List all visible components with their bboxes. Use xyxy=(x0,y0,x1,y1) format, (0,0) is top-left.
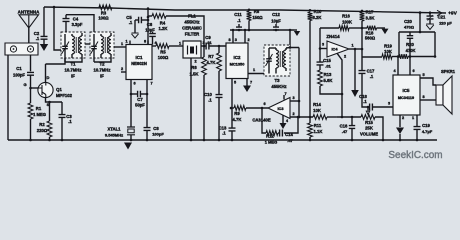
svg-text:R19: R19 xyxy=(384,44,392,49)
capacitor C21 xyxy=(427,13,453,26)
IC5 pin2 ground xyxy=(396,115,404,140)
wire bus to T3 secondary xyxy=(289,29,292,48)
ground at bottom rail xyxy=(124,143,132,150)
node gate xyxy=(29,87,32,90)
ground below C2 xyxy=(40,44,48,51)
capacitor C13 xyxy=(219,126,236,141)
wire IC3 inv input xyxy=(290,116,313,119)
svg-text:3.3pF: 3.3pF xyxy=(72,22,83,27)
IC3 ground xyxy=(280,115,289,129)
svg-text:MC34119: MC34119 xyxy=(398,96,414,100)
svg-text:1 MEG: 1 MEG xyxy=(33,112,46,117)
op IC4 ZN414 triangle xyxy=(326,34,349,57)
svg-text:IC5: IC5 xyxy=(403,88,410,93)
wire FL1 output xyxy=(201,45,206,48)
wire T1 to T2 link xyxy=(85,43,90,45)
capacitor C18 xyxy=(359,94,393,111)
supply arrowhead and +9V label xyxy=(437,10,458,16)
svg-text:10.7MHz: 10.7MHz xyxy=(65,68,82,73)
svg-text:R4: R4 xyxy=(160,21,166,26)
T1 core xyxy=(76,37,78,53)
wire left border xyxy=(7,55,9,140)
filter FL1 label xyxy=(182,14,202,37)
svg-text:.47: .47 xyxy=(342,129,348,134)
capacitor C1 xyxy=(13,66,34,88)
capacitor C12 xyxy=(271,12,281,31)
svg-text:3: 3 xyxy=(202,41,204,45)
wire IC2 pin3 xyxy=(228,29,236,43)
wire IC1 pin7 to oscillator xyxy=(147,80,153,95)
svg-text:560Ω: 560Ω xyxy=(365,36,376,41)
svg-text:CERAMIC: CERAMIC xyxy=(182,26,202,31)
capacitor C10 xyxy=(204,92,222,140)
IC2 pin1 wire to T3 xyxy=(248,68,272,75)
T3 primary coil xyxy=(276,48,278,74)
ground for IC2 bus xyxy=(294,30,300,36)
resistor R2 xyxy=(37,102,52,140)
filter FL1 box xyxy=(179,41,205,64)
transformer T1 can (dashed box) xyxy=(61,32,85,58)
svg-text:220Ω: 220Ω xyxy=(37,128,48,133)
IC3 pin numbers xyxy=(263,92,294,116)
resistor R5 xyxy=(152,44,183,60)
svg-text:1: 1 xyxy=(253,68,255,72)
capacitor C11 xyxy=(234,12,242,31)
node IC3 feedback tap xyxy=(261,107,264,110)
svg-text:8: 8 xyxy=(422,95,424,99)
IC2 pin5 stub xyxy=(232,79,236,129)
wire IC1 pin6 to oscillator xyxy=(131,80,136,95)
svg-text:1: 1 xyxy=(351,44,353,48)
wire IC3 feedback xyxy=(262,108,299,133)
svg-text:C7: C7 xyxy=(137,97,143,102)
op IC1 NE602N box xyxy=(126,45,152,80)
resistor R13 xyxy=(318,65,344,95)
ground below C21 xyxy=(426,24,434,30)
svg-text:3: 3 xyxy=(388,102,390,106)
svg-text:470Ω: 470Ω xyxy=(404,25,415,30)
svg-text:C8: C8 xyxy=(153,126,159,131)
svg-text:R16: R16 xyxy=(342,14,350,19)
resistor R6 xyxy=(190,46,207,140)
svg-text:R1: R1 xyxy=(36,106,42,111)
svg-text:10µF: 10µF xyxy=(145,28,155,33)
svg-text:FL1: FL1 xyxy=(188,14,196,19)
svg-text:1: 1 xyxy=(179,42,181,46)
resistor R11 xyxy=(308,117,323,140)
resistor R19 xyxy=(382,44,399,59)
capacitor C6 xyxy=(145,22,156,45)
svg-text:2: 2 xyxy=(194,60,196,64)
svg-text:SPKR1: SPKR1 xyxy=(441,69,456,74)
wire source node xyxy=(46,97,63,103)
svg-text:MC1350: MC1350 xyxy=(230,62,246,67)
svg-text:455KHz: 455KHz xyxy=(184,20,199,25)
svg-text:IC1: IC1 xyxy=(136,55,143,60)
speaker SPKR1 xyxy=(436,69,456,114)
svg-text:G: G xyxy=(23,82,26,87)
svg-text:2: 2 xyxy=(247,38,249,42)
capacitor C5 xyxy=(126,15,148,25)
wire IC2 top bus xyxy=(230,29,294,31)
resistor R12 xyxy=(265,131,280,145)
svg-text:IF: IF xyxy=(100,74,104,79)
capacitor C19 xyxy=(414,123,433,140)
resistor R16 xyxy=(320,14,362,31)
op IC2 MC1350 box xyxy=(226,43,248,79)
node IC4 input xyxy=(319,47,322,50)
resistor R9 xyxy=(230,106,268,122)
IC4 pin2 wire down xyxy=(337,53,346,118)
svg-text:FILTER: FILTER xyxy=(185,32,199,37)
IC5 output wires to speaker xyxy=(420,73,436,100)
resistor R3 on rail xyxy=(98,5,112,21)
wire to IC5 pin4 xyxy=(393,55,399,75)
svg-text:5: 5 xyxy=(422,73,424,77)
wire drain to T1 xyxy=(46,58,66,82)
svg-text:8: 8 xyxy=(228,38,230,42)
T3 secondary coil xyxy=(284,48,286,71)
capacitor C7 xyxy=(130,91,149,108)
wire rail to IC1 xyxy=(147,8,150,44)
svg-text:5: 5 xyxy=(234,81,236,85)
svg-text:R12: R12 xyxy=(266,134,274,139)
svg-text:1.5K: 1.5K xyxy=(190,72,199,77)
svg-text:ANTENNA: ANTENNA xyxy=(18,9,40,14)
svg-text:SeekIC.com: SeekIC.com xyxy=(388,150,442,161)
svg-text:3: 3 xyxy=(322,43,324,47)
svg-text:4.7K: 4.7K xyxy=(233,117,242,122)
svg-text:8.2K: 8.2K xyxy=(313,15,322,20)
svg-text:3: 3 xyxy=(292,96,294,100)
wire loop right side xyxy=(434,32,437,58)
transformer T3 can (dashed box) xyxy=(264,45,290,76)
svg-text:R6: R6 xyxy=(191,65,197,70)
svg-text:+9V: +9V xyxy=(448,11,458,17)
svg-text:7: 7 xyxy=(250,81,252,85)
wire gate xyxy=(23,82,38,88)
svg-text:R7: R7 xyxy=(208,54,214,59)
T2 label xyxy=(94,62,111,79)
svg-text:C14: C14 xyxy=(285,132,293,137)
svg-text:9.545MHz: 9.545MHz xyxy=(105,133,123,138)
resistor R10 xyxy=(308,9,322,21)
svg-text:100Ω: 100Ω xyxy=(98,16,109,21)
svg-text:150Ω: 150Ω xyxy=(252,15,263,20)
svg-text:T3: T3 xyxy=(274,78,280,83)
wire T2 to IC1 pin1 xyxy=(114,42,126,47)
svg-text:C20: C20 xyxy=(404,19,412,24)
svg-text:1.2K: 1.2K xyxy=(159,26,168,31)
T2 core xyxy=(105,37,107,53)
capacitor C9 xyxy=(205,35,226,50)
antenna symbol xyxy=(19,15,39,43)
antenna label xyxy=(18,9,40,14)
svg-text:5.6K: 5.6K xyxy=(324,78,333,83)
wire top supply rail xyxy=(44,7,446,13)
ground arrow on IC4 output xyxy=(351,48,359,97)
svg-text:100pF: 100pF xyxy=(152,132,164,137)
svg-text:7: 7 xyxy=(284,92,286,96)
wire bottom ground rail xyxy=(8,139,437,141)
transistor Q1 MPF102 xyxy=(38,75,73,107)
capacitor C3 xyxy=(59,102,73,140)
svg-text:XTAL1: XTAL1 xyxy=(107,127,121,132)
resistor R4 xyxy=(148,14,204,46)
svg-text:C4: C4 xyxy=(73,17,79,22)
resistor R7 xyxy=(207,45,222,95)
wire rail feed to T1 xyxy=(54,7,65,50)
svg-text:7: 7 xyxy=(150,82,152,86)
svg-text:4: 4 xyxy=(286,119,288,123)
svg-text:IC2: IC2 xyxy=(234,55,241,60)
T3 label xyxy=(271,78,286,89)
svg-text:.01: .01 xyxy=(206,40,212,45)
svg-text:C19: C19 xyxy=(422,123,430,128)
svg-text:6: 6 xyxy=(412,69,414,73)
wire jack to C1 xyxy=(30,55,32,71)
resistor R1 xyxy=(28,88,46,140)
svg-text:1: 1 xyxy=(121,42,123,46)
capacitor C15 xyxy=(317,49,332,69)
wire FL1 pin2 to ground xyxy=(190,58,192,140)
svg-text:R5: R5 xyxy=(160,50,166,55)
svg-text:220 µF: 220 µF xyxy=(439,21,452,26)
capacitor C17 xyxy=(359,57,376,107)
ground for C5 C6 xyxy=(132,20,139,38)
svg-text:4.7K: 4.7K xyxy=(207,60,216,65)
svg-text:MPF102: MPF102 xyxy=(56,93,73,98)
resistor R20 xyxy=(398,42,435,59)
svg-text:R17: R17 xyxy=(366,10,374,15)
svg-text:C10: C10 xyxy=(204,92,212,97)
T1 secondary coil xyxy=(80,33,82,58)
wire R17 down xyxy=(361,21,364,57)
svg-text:3: 3 xyxy=(235,38,237,42)
IC3 pin7 stub xyxy=(283,95,285,100)
wire IC2 pin2 xyxy=(244,29,250,43)
svg-text:IF: IF xyxy=(71,74,75,79)
T2 secondary coil xyxy=(109,33,111,58)
svg-text:4.7µF: 4.7µF xyxy=(422,129,433,134)
svg-text:R10: R10 xyxy=(314,9,322,14)
capacitor C20 loop xyxy=(399,19,435,57)
wire bias row y57 xyxy=(362,56,382,58)
svg-text:VOLUME: VOLUME xyxy=(360,132,378,137)
svg-text:3.3K: 3.3K xyxy=(366,16,375,21)
wire IC3 noninv input xyxy=(290,96,299,101)
T3 core xyxy=(280,51,282,67)
svg-text:6: 6 xyxy=(133,82,135,86)
svg-text:R8: R8 xyxy=(254,9,260,14)
svg-text:100pF: 100pF xyxy=(13,73,25,78)
svg-text:C17: C17 xyxy=(367,69,375,74)
crystal XTAL1 xyxy=(105,94,135,140)
T1 trimmer capacitor xyxy=(62,34,70,56)
svg-text:50pF: 50pF xyxy=(135,103,145,108)
svg-text:6: 6 xyxy=(263,102,265,106)
svg-text:ZN414: ZN414 xyxy=(326,34,340,39)
svg-text:C1: C1 xyxy=(16,66,22,71)
svg-text:455KHz: 455KHz xyxy=(271,84,286,89)
potentiometer R15 volume xyxy=(360,108,383,140)
svg-text:1: 1 xyxy=(125,40,127,44)
T1 primary coil xyxy=(72,34,74,58)
svg-text:R2: R2 xyxy=(39,122,45,127)
wire IC4 output xyxy=(349,44,362,50)
wire T3 secondary out xyxy=(286,46,299,49)
svg-text:10.7MHz: 10.7MHz xyxy=(94,68,111,73)
IC5 pin1 stub xyxy=(412,115,417,127)
resistor R8 xyxy=(247,9,264,31)
transformer T2 can (dashed box) xyxy=(90,32,114,58)
svg-text:C11: C11 xyxy=(234,12,242,17)
svg-text:10µF: 10µF xyxy=(271,19,281,24)
svg-text:1.1K: 1.1K xyxy=(314,129,323,134)
jack J1 box xyxy=(5,43,38,55)
T2 primary coil xyxy=(101,34,103,58)
wire rail tap to bias xyxy=(419,13,421,32)
resistor R18 xyxy=(362,26,385,41)
svg-text:IC3: IC3 xyxy=(277,106,284,111)
svg-text:D: D xyxy=(47,75,50,80)
T3 capacitor xyxy=(266,48,277,74)
wire T3 down to IC3 xyxy=(298,48,301,119)
svg-text:10K: 10K xyxy=(384,49,392,54)
svg-text:8: 8 xyxy=(144,40,146,44)
svg-text:25K: 25K xyxy=(365,126,373,131)
svg-text:R15: R15 xyxy=(365,120,373,125)
svg-text:R11: R11 xyxy=(314,123,322,128)
capacitor C8 xyxy=(144,94,165,140)
svg-text:2: 2 xyxy=(402,116,404,120)
svg-text:NE602N: NE602N xyxy=(131,61,147,66)
svg-text:Q1: Q1 xyxy=(56,87,62,92)
svg-text:C15: C15 xyxy=(323,58,331,63)
svg-text:100Ω: 100Ω xyxy=(158,55,169,60)
op IC3 CA3140E triangle xyxy=(252,98,290,123)
ground for R18 xyxy=(382,29,389,34)
junction dots on top rail xyxy=(53,6,432,14)
capacitor C4 xyxy=(63,15,83,34)
IC1 pin4 label xyxy=(154,41,157,45)
svg-text:1: 1 xyxy=(412,116,414,120)
svg-text:C21: C21 xyxy=(438,15,446,20)
svg-text:R14: R14 xyxy=(313,102,321,107)
svg-text:2: 2 xyxy=(292,112,294,116)
svg-text:C6: C6 xyxy=(147,22,153,27)
capacitor C16 xyxy=(337,116,361,140)
svg-text:IC4: IC4 xyxy=(331,47,338,52)
wire T1 bottom pins xyxy=(65,56,82,62)
svg-text:.01: .01 xyxy=(325,64,331,69)
capacitor C14 xyxy=(280,130,294,144)
IC1 pin2 stub xyxy=(121,67,126,72)
wire R10 down xyxy=(309,21,311,118)
jack terminal left xyxy=(10,46,16,52)
svg-text:2: 2 xyxy=(344,55,346,59)
op IC5 MC34119 box xyxy=(393,75,420,115)
svg-text:C12: C12 xyxy=(272,12,280,17)
svg-text:R13: R13 xyxy=(324,72,332,77)
wire T2 bottom pins xyxy=(94,56,111,62)
wire T1 top coupling to T2 xyxy=(66,15,94,32)
jack terminal right xyxy=(27,46,33,52)
svg-text:100K: 100K xyxy=(342,20,352,25)
resistor R17 xyxy=(360,10,375,22)
svg-text:C16: C16 xyxy=(340,124,348,129)
capacitor C2 xyxy=(34,7,48,44)
svg-text:10K: 10K xyxy=(313,108,321,113)
junction dots bottom rail xyxy=(29,139,418,142)
watermark SeekIC.com xyxy=(388,150,442,161)
T2 trimmer capacitor xyxy=(91,34,99,56)
wire IC4 input stub xyxy=(320,43,327,49)
IC2 pin7 ground xyxy=(243,79,252,93)
resistor R14 xyxy=(313,102,337,119)
wire to IC5 pin7 xyxy=(410,57,415,76)
IC1 top pin stubs xyxy=(125,40,148,45)
wire R16 riser xyxy=(319,28,321,49)
svg-text:2: 2 xyxy=(121,67,123,71)
T1 label xyxy=(65,62,82,79)
svg-text:R9: R9 xyxy=(234,111,240,116)
